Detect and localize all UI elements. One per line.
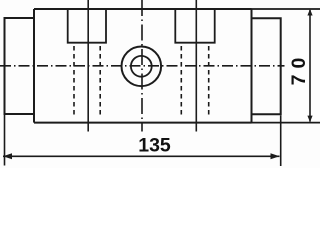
bottom extension line for dim 70: [252, 122, 320, 124]
dim 70 line: [309, 10, 311, 122]
dim 135 left arrow: [3, 153, 12, 159]
slot 2 outline: [175, 9, 214, 43]
svg-text:70: 70: [288, 52, 310, 86]
dim 135 right arrow: [271, 153, 280, 159]
left tab outline: [5, 18, 35, 114]
dim 135 line: [3, 155, 280, 157]
body left edge: [33, 9, 35, 123]
body bottom edge: [34, 122, 252, 124]
outer circle: [122, 47, 162, 87]
right tab outline: [252, 18, 281, 114]
slot 2 hidden line right: [208, 46, 210, 115]
horizontal centerline: [0, 65, 285, 67]
body right edge: [251, 9, 253, 123]
dim 70 top arrow: [307, 9, 312, 16]
slot 2 center solid line: [195, 0, 197, 132]
dim 135 extension line left: [4, 115, 6, 166]
top extension line for dim 70: [252, 8, 320, 10]
inner circle: [131, 56, 152, 77]
slot 1 center solid line: [87, 0, 89, 132]
vertical centerline: [141, 0, 143, 132]
svg-text:135: 135: [138, 134, 171, 156]
body top edge: [34, 8, 252, 10]
slot 1 outline: [68, 9, 106, 43]
dim 70 bottom arrow: [307, 116, 312, 123]
slot 1 hidden line right: [99, 46, 101, 115]
dim 135 extension line right: [280, 115, 282, 166]
slot 1 hidden line left: [73, 46, 75, 115]
slot 2 hidden line left: [180, 46, 182, 115]
